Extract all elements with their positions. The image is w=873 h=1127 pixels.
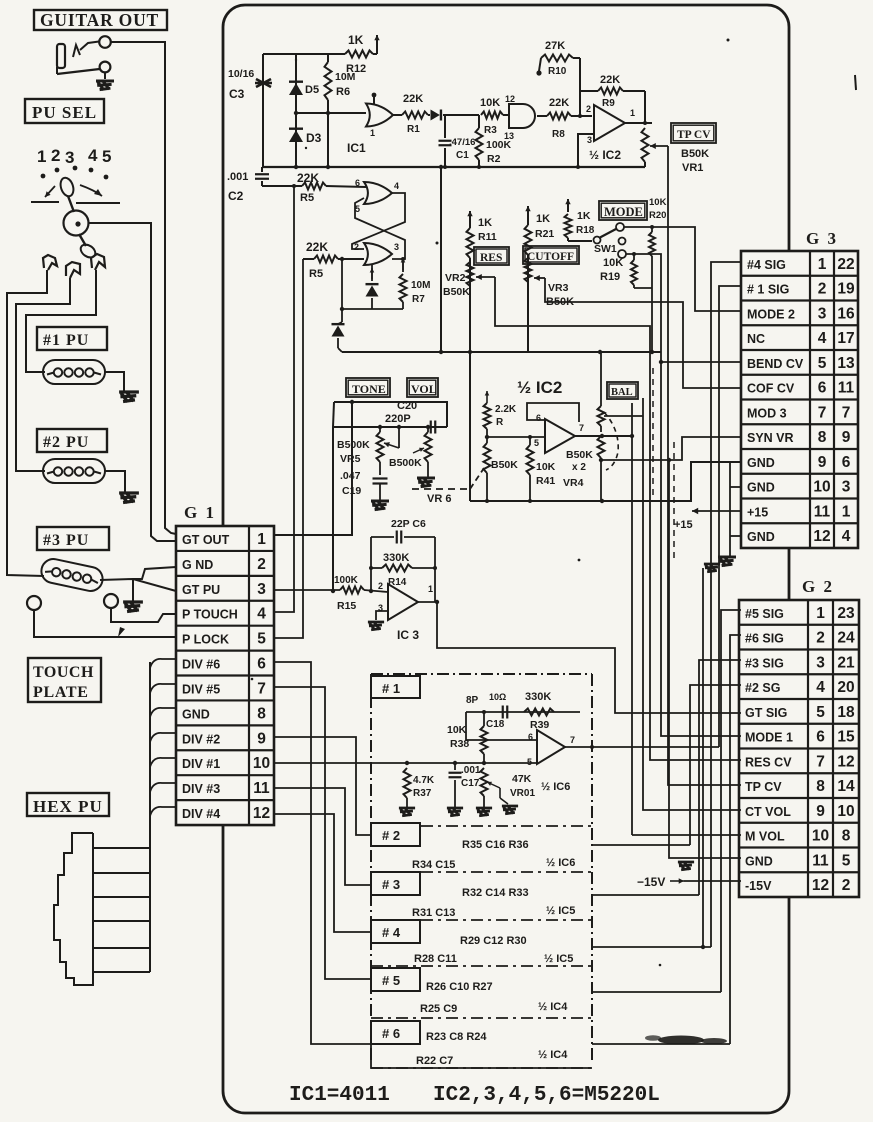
svg-text:6: 6 — [818, 380, 827, 397]
connector G3 pin 8 SYN VR — [747, 429, 851, 446]
svg-text:8: 8 — [257, 705, 266, 722]
rotation arrow right — [80, 185, 102, 196]
wire coil L3 to ground — [132, 579, 134, 601]
connector G1 pin 3 GT PU — [182, 581, 266, 598]
svg-text:.47/16: .47/16 — [449, 137, 475, 148]
note IC1=4011 IC2,3,4,5,6=M5220L — [289, 1084, 660, 1107]
svg-text:6: 6 — [536, 413, 541, 423]
label #1 PU — [37, 327, 107, 350]
ground at -15V — [678, 862, 694, 870]
wire touch plate to G1 pin4 P TOUCH — [111, 608, 176, 637]
wire under oscillator — [340, 259, 403, 322]
pot B50K input — [484, 443, 519, 501]
svg-text:R25 C9: R25 C9 — [420, 1003, 457, 1015]
ground at IC3 — [368, 622, 384, 630]
svg-text:VR1: VR1 — [682, 162, 703, 174]
svg-text:11: 11 — [253, 780, 270, 797]
svg-text:B50K: B50K — [443, 286, 470, 298]
pickup coil L2 — [43, 459, 105, 483]
ground at VOL pot — [417, 478, 435, 487]
svg-text:#3 PU: #3 PU — [43, 532, 89, 549]
ground under G3 — [718, 557, 736, 566]
label MODE — [599, 201, 647, 220]
svg-text:8: 8 — [816, 778, 825, 795]
wire jack tip to G1 pin1 — [111, 42, 176, 534]
connector G2 pin 6 MODE 1 — [745, 729, 855, 746]
wire switch rotor to G1 pin1 — [89, 223, 177, 541]
svg-text:18: 18 — [837, 704, 855, 721]
svg-text:MODE: MODE — [604, 205, 643, 219]
wire coil L3 to G1 pin2 GND — [133, 567, 176, 579]
resistor R19 — [631, 252, 652, 288]
svg-text:10: 10 — [812, 828, 829, 845]
wire tone input from G1 pin1 — [274, 400, 447, 535]
svg-text:#3 SIG: #3 SIG — [745, 656, 784, 670]
svg-text:RES CV: RES CV — [745, 755, 792, 769]
NOR gate IC1a — [366, 93, 402, 138]
label #1 — [371, 676, 420, 698]
capacitor C1 .47/16 — [439, 115, 476, 167]
capacitor C19 .047 — [340, 470, 388, 500]
diode D5 — [289, 54, 319, 113]
label IC1 — [347, 141, 366, 155]
wire IC2b output to M VOL — [575, 403, 741, 835]
svg-text:PU SEL: PU SEL — [32, 103, 97, 122]
label GUITAR OUT — [34, 10, 167, 30]
svg-text:x 2: x 2 — [572, 462, 586, 473]
svg-text:3: 3 — [842, 479, 851, 496]
svg-text:6: 6 — [257, 656, 266, 673]
wire G1 pin10 DIV1 to channel 1 — [274, 757, 537, 765]
capacitor C3 10/16 — [228, 54, 272, 167]
svg-text:R32 C14 R33: R32 C14 R33 — [462, 887, 529, 899]
svg-text:12: 12 — [813, 528, 830, 545]
resistor R18 1K — [565, 199, 595, 241]
label PU SEL — [25, 99, 104, 123]
svg-text:C17: C17 — [461, 778, 480, 789]
svg-text:VR3: VR3 — [548, 282, 569, 294]
svg-text:11: 11 — [812, 852, 829, 869]
svg-text:GND: GND — [747, 481, 775, 495]
svg-text:1: 1 — [428, 584, 433, 594]
svg-text:B50K: B50K — [566, 449, 593, 461]
wire tone bottom — [331, 425, 447, 593]
resistor R20 — [649, 225, 655, 351]
resistor R37 4.7K — [404, 768, 435, 807]
NAND gate IC1b pins 12 13 — [504, 94, 547, 141]
wire channel 1 output to G3 pin2 — [565, 286, 741, 749]
wire G1 pin3 to IC3 — [274, 589, 340, 591]
svg-text:12: 12 — [837, 753, 854, 770]
svg-text:BEND CV: BEND CV — [747, 357, 804, 371]
wire IC2a pin3 to bus — [578, 134, 594, 167]
svg-text:TP CV: TP CV — [677, 129, 711, 141]
svg-text:B50K: B50K — [681, 148, 709, 160]
resistor R41 10K — [527, 435, 556, 501]
wire SW1 bottom to G3 pin5 BEND CV — [626, 254, 741, 364]
label RES — [474, 247, 509, 265]
svg-text:R22 C7: R22 C7 — [416, 1055, 453, 1067]
selector switch SW lever and rotor — [31, 176, 120, 260]
channel 6 bottom rail — [371, 1041, 592, 1068]
svg-text:VR01: VR01 — [510, 788, 535, 799]
svg-text:9: 9 — [842, 429, 851, 446]
svg-text:R2: R2 — [487, 153, 501, 165]
svg-text:22K: 22K — [297, 171, 319, 185]
svg-text:GT PU: GT PU — [182, 583, 220, 597]
connector G2 pin 8 TP CV — [745, 778, 855, 795]
channel 3 parts labels — [412, 887, 575, 919]
resistor R21 1K with pot VR3 — [525, 206, 555, 352]
svg-text:PLATE: PLATE — [33, 684, 89, 701]
pickup coil L3 — [39, 557, 105, 593]
svg-text:½ IC4: ½ IC4 — [538, 1001, 568, 1013]
selector contact c — [91, 254, 105, 270]
selector contact b — [66, 262, 80, 278]
svg-text:22K: 22K — [600, 74, 620, 86]
svg-text:R12: R12 — [346, 63, 366, 75]
svg-text:11: 11 — [814, 503, 831, 520]
svg-text:R8: R8 — [552, 129, 565, 140]
selector position numbers 1 2 3 4 5 — [37, 146, 111, 167]
svg-text:1: 1 — [816, 605, 825, 622]
resistor R15 100K — [334, 575, 388, 612]
wire R5b to G1 pin5 — [274, 259, 303, 638]
svg-text:10K: 10K — [536, 461, 556, 473]
wires hex bus to G1 DIV pins — [150, 659, 176, 816]
channel box right edge — [591, 828, 593, 1062]
label half IC2 — [517, 378, 562, 397]
guitar output jack J1 — [57, 36, 111, 74]
svg-text:330K: 330K — [525, 691, 551, 703]
wire to G2 pin11 GND — [669, 460, 741, 858]
svg-text:R1: R1 — [407, 124, 420, 135]
channel separator 3 — [371, 965, 592, 967]
wire G3 GND pins to ground — [730, 462, 741, 556]
svg-text:VOL: VOL — [411, 382, 437, 396]
wire VR4 to G3 pin8 SYN VR — [599, 437, 741, 462]
svg-text:1K: 1K — [577, 210, 591, 222]
svg-text:M VOL: M VOL — [745, 830, 785, 844]
connector G1 pin 5 P LOCK — [182, 631, 266, 648]
svg-text:220P: 220P — [385, 413, 411, 425]
svg-text:3: 3 — [818, 305, 827, 322]
svg-text:C3: C3 — [229, 87, 245, 101]
svg-text:10M: 10M — [411, 280, 430, 291]
connector G3 pin 11 +15 — [747, 503, 851, 520]
wire IC3 pin3 ground — [376, 611, 388, 620]
wire MODE1 to G2 pin6 — [661, 362, 741, 736]
connector G2 pin 4 #2 SG — [745, 679, 855, 696]
connector G1 pin 9 DIV #2 — [182, 730, 266, 747]
channel box left edge — [370, 828, 372, 1062]
channel separator 5 — [371, 1067, 592, 1069]
svg-text:#2 PU: #2 PU — [43, 434, 89, 451]
svg-text:TP CV: TP CV — [745, 780, 782, 794]
svg-text:COF CV: COF CV — [747, 382, 795, 396]
connector G3 pin 5 BEND CV — [747, 355, 855, 372]
wire G1 pin12 to channel 4 — [274, 814, 371, 932]
svg-text:DIV #1: DIV #1 — [182, 757, 220, 771]
svg-text:11: 11 — [838, 380, 855, 397]
diode D2 — [366, 265, 379, 309]
resistor R9 22K feedback — [580, 74, 645, 123]
svg-text:½ IC4: ½ IC4 — [538, 1049, 568, 1061]
svg-text:SW1: SW1 — [594, 243, 617, 255]
svg-text:7: 7 — [570, 735, 575, 745]
svg-text:1K: 1K — [478, 217, 492, 229]
svg-text:7: 7 — [257, 680, 266, 697]
svg-text:27K: 27K — [545, 40, 565, 52]
connector G3 pin 7 MOD 3 — [747, 404, 850, 421]
svg-text:DIV #2: DIV #2 — [182, 732, 220, 746]
connector G1 pin 2 G ND — [182, 556, 266, 573]
svg-text:DIV #5: DIV #5 — [182, 682, 220, 696]
svg-text:R10: R10 — [548, 66, 567, 77]
svg-text:IC 3: IC 3 — [397, 628, 419, 642]
svg-text:10/16: 10/16 — [228, 68, 254, 80]
label HEX PU — [27, 793, 109, 816]
svg-text:B500K: B500K — [389, 457, 422, 469]
svg-text:3: 3 — [65, 148, 74, 167]
svg-text:1: 1 — [842, 503, 851, 520]
cross coupling wires — [352, 193, 405, 259]
wire IC3 output to G2 pin5 GT SIG — [418, 600, 741, 713]
svg-text:9: 9 — [257, 730, 266, 747]
svg-text:IC2,3,4,5,6=M5220L: IC2,3,4,5,6=M5220L — [433, 1084, 660, 1107]
hex pickup wires to G1 bus — [93, 662, 150, 972]
selector contact a — [43, 255, 57, 270]
wire VR2 wiper to G2 pin7 RES CV — [476, 274, 741, 760]
svg-text:R35 C16 R36: R35 C16 R36 — [462, 839, 529, 851]
svg-text:R34 C15: R34 C15 — [412, 859, 455, 871]
connector G2 pin 1 #5 SIG — [745, 605, 855, 622]
capacitor C2 .001 — [227, 167, 269, 203]
resistor R1 22K — [402, 93, 428, 135]
svg-text:G 2: G 2 — [802, 577, 834, 596]
svg-text:# 1 SIG: # 1 SIG — [747, 283, 789, 297]
wire touch plate to G1 pin5 P LOCK — [34, 610, 176, 637]
svg-text:D3: D3 — [306, 131, 322, 145]
channel 1 box — [371, 674, 592, 828]
selector position dots — [41, 166, 109, 180]
svg-text:4: 4 — [394, 181, 399, 191]
svg-text:22K: 22K — [306, 240, 328, 254]
ground at VR01 — [476, 806, 518, 816]
svg-text:17: 17 — [837, 330, 854, 347]
resistor R10 27K — [536, 40, 580, 91]
channel 2 output to G2 pin4 — [592, 685, 741, 845]
label VR3 B50K — [546, 282, 574, 308]
channel 5 output to G2 pin1 — [592, 610, 741, 992]
svg-text:R31 C13: R31 C13 — [412, 907, 455, 919]
svg-text:5: 5 — [818, 355, 827, 372]
wire contact b to pickup 2 — [16, 278, 70, 471]
svg-text:GUITAR OUT: GUITAR OUT — [40, 10, 159, 30]
capacitor C18 8P — [466, 692, 507, 730]
label #6 — [371, 1021, 420, 1044]
svg-text:C20: C20 — [397, 400, 417, 412]
svg-text:1: 1 — [257, 531, 266, 548]
connector G3 pin 1 #4 SIG — [747, 256, 855, 273]
svg-text:# 3: # 3 — [382, 877, 400, 892]
label CUTOFF — [523, 246, 579, 264]
svg-text:19: 19 — [837, 281, 855, 298]
wire G1 pin11 to channel 3 — [274, 788, 371, 885]
connector G3 body — [741, 251, 858, 548]
svg-text:R6: R6 — [336, 86, 350, 98]
connector G2 pin 3 #3 SIG — [745, 654, 855, 671]
svg-text:NC: NC — [747, 332, 765, 346]
channel separator 0 — [371, 825, 592, 827]
svg-text:5: 5 — [842, 852, 851, 869]
svg-text:21: 21 — [837, 654, 855, 671]
ground at jack — [96, 81, 114, 90]
svg-text:DIV #3: DIV #3 — [182, 782, 220, 796]
wire coil L3 to G1 pin3 — [100, 579, 176, 591]
ground at C17 — [447, 808, 463, 816]
svg-text:20: 20 — [837, 679, 854, 696]
feedback rail channel 1 — [466, 710, 580, 714]
svg-text:1: 1 — [818, 256, 827, 273]
label BAL — [607, 382, 638, 399]
wire SW1 top to G3 pin3 MODE2 — [624, 227, 741, 311]
svg-text:R19: R19 — [600, 271, 620, 283]
channel separator 1 — [371, 871, 592, 873]
resistor R7 10M — [400, 257, 431, 309]
connector G1 pin 7 DIV #5 — [182, 680, 266, 697]
label R19 10K — [600, 257, 623, 283]
channel 6 parts labels — [416, 1031, 568, 1067]
svg-text:10K: 10K — [649, 197, 667, 208]
svg-text:C1: C1 — [456, 150, 469, 161]
label TOUCH PLATE — [28, 658, 101, 702]
svg-text:C2: C2 — [228, 189, 244, 203]
svg-text:GT SIG: GT SIG — [745, 706, 787, 720]
svg-text:10K: 10K — [447, 724, 467, 736]
hex pickup body — [54, 833, 93, 985]
svg-text:13: 13 — [504, 131, 514, 141]
ground at C19 — [371, 501, 389, 510]
channel 5 parts labels — [420, 981, 568, 1015]
svg-text:8: 8 — [818, 429, 827, 446]
pot VR4 B50K x2 — [563, 351, 618, 501]
connector G3 pin 10 GND — [747, 479, 851, 496]
svg-text:7: 7 — [818, 404, 827, 421]
resistor R11 1K with pot VR2 — [467, 211, 497, 352]
svg-text:R20: R20 — [649, 210, 666, 221]
channel 6 output to G2 pin2 — [592, 635, 741, 1044]
svg-text:.001: .001 — [227, 171, 248, 183]
label #4 — [371, 920, 420, 943]
svg-text:DIV #4: DIV #4 — [182, 807, 220, 821]
label #3 — [371, 872, 420, 895]
capacitor C6 22P — [371, 518, 435, 591]
pot VR01 47K — [481, 768, 536, 807]
connector G2 body — [739, 600, 859, 897]
svg-text:4: 4 — [818, 330, 827, 347]
svg-text:2: 2 — [816, 630, 825, 647]
svg-text:6: 6 — [842, 454, 851, 471]
svg-text:GND: GND — [182, 707, 210, 721]
pot VR1 B50K — [642, 123, 669, 167]
svg-text:+15: +15 — [674, 519, 693, 531]
svg-text:3: 3 — [257, 581, 266, 598]
svg-text:12: 12 — [505, 94, 515, 104]
wire contact a to pickup 3 — [7, 270, 47, 576]
diode D1 — [428, 110, 479, 121]
label #5 — [371, 968, 420, 991]
ground at R37 — [399, 808, 415, 816]
svg-text:GND: GND — [747, 530, 775, 544]
svg-text:R: R — [496, 417, 504, 428]
svg-text:4: 4 — [88, 146, 98, 165]
svg-text:22: 22 — [837, 256, 854, 273]
svg-text:5: 5 — [816, 704, 825, 721]
svg-text:MODE 1: MODE 1 — [745, 731, 793, 745]
svg-text:13: 13 — [837, 355, 855, 372]
channel separator 2 — [371, 919, 592, 921]
svg-text:MODE 2: MODE 2 — [747, 307, 795, 321]
wire VR3 wiper to G3 pin6 COF CV — [534, 275, 741, 388]
svg-text:R37: R37 — [413, 788, 432, 799]
connector G1 title — [184, 503, 216, 522]
connector G3 pin 9 GND — [747, 454, 851, 471]
svg-text:3: 3 — [587, 135, 592, 145]
svg-text:10K: 10K — [603, 257, 623, 269]
wire coil L2 to ground — [104, 471, 125, 492]
svg-text:C18: C18 — [486, 719, 505, 730]
svg-text:C19: C19 — [342, 485, 361, 497]
op-amp IC6a — [527, 730, 575, 793]
svg-text:R28 C11: R28 C11 — [414, 953, 457, 965]
svg-text:14: 14 — [837, 778, 855, 795]
svg-text:SYN VR: SYN VR — [747, 431, 794, 445]
svg-text:D5: D5 — [305, 84, 319, 96]
label VR2 B50K — [443, 272, 470, 298]
connector G1 pin 11 DIV #3 — [182, 780, 270, 797]
capacitor C20 220P — [385, 400, 435, 434]
svg-text:2: 2 — [378, 581, 383, 591]
svg-text:RES: RES — [480, 252, 502, 264]
svg-text:12: 12 — [812, 877, 829, 894]
label VOL — [407, 378, 438, 397]
svg-text:3: 3 — [816, 654, 825, 671]
svg-text:7: 7 — [842, 404, 851, 421]
svg-text:IC1: IC1 — [347, 141, 366, 155]
svg-text:2: 2 — [586, 104, 591, 114]
svg-text:5: 5 — [534, 438, 539, 448]
svg-text:½ IC5: ½ IC5 — [544, 953, 573, 965]
resistor R39 330K — [524, 691, 554, 731]
svg-text:8P: 8P — [466, 695, 479, 706]
svg-text:7: 7 — [579, 423, 584, 433]
connector G1 pin 8 GND — [182, 705, 266, 722]
svg-text:15: 15 — [837, 729, 855, 746]
resistor R5b 22K — [303, 240, 364, 280]
resistor R8 22K — [547, 97, 592, 140]
connector G1 pin 10 DIV #1 — [182, 755, 270, 772]
op-amp IC3 — [378, 581, 433, 642]
svg-text:# 6: # 6 — [382, 1026, 400, 1041]
wire coil L1 to ground — [105, 372, 124, 391]
svg-text:4: 4 — [842, 528, 851, 545]
wire D5 to gate — [294, 111, 366, 115]
svg-text:VR4: VR4 — [563, 477, 584, 489]
svg-text:1: 1 — [630, 108, 635, 118]
svg-text:G 1: G 1 — [184, 503, 216, 522]
svg-text:47K: 47K — [512, 773, 532, 785]
